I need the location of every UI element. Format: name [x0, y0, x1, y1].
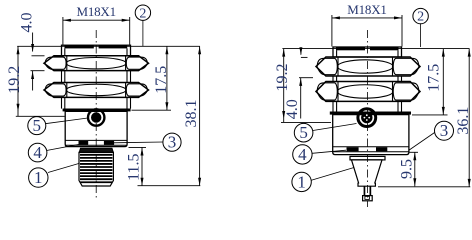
svg-text:36.1: 36.1 — [455, 107, 472, 135]
svg-text:5: 5 — [33, 116, 42, 135]
svg-text:3: 3 — [168, 133, 177, 152]
svg-text:9.5: 9.5 — [399, 159, 416, 179]
svg-text:38.1: 38.1 — [183, 100, 200, 128]
svg-text:M18X1: M18X1 — [76, 4, 115, 19]
svg-text:11.5: 11.5 — [125, 153, 142, 180]
svg-text:17.5: 17.5 — [153, 66, 170, 94]
svg-text:4: 4 — [298, 145, 307, 164]
svg-text:17.5: 17.5 — [426, 64, 443, 92]
svg-text:1: 1 — [297, 172, 306, 191]
svg-text:5: 5 — [299, 123, 308, 142]
svg-text:2: 2 — [139, 6, 146, 21]
svg-text:3: 3 — [440, 121, 449, 140]
svg-text:2: 2 — [417, 10, 424, 25]
svg-text:4.0: 4.0 — [19, 13, 36, 33]
svg-text:19.2: 19.2 — [6, 66, 23, 94]
svg-text:4.0: 4.0 — [284, 99, 301, 119]
svg-text:19.2: 19.2 — [274, 64, 291, 92]
svg-text:4: 4 — [33, 143, 42, 162]
svg-text:1: 1 — [34, 168, 43, 187]
svg-text:M18X1: M18X1 — [347, 2, 386, 17]
